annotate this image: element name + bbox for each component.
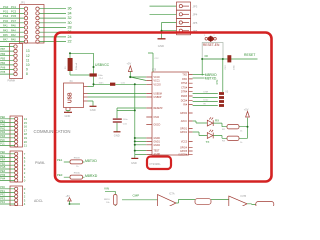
svg-text:IC7A: IC7A xyxy=(169,193,175,196)
svg-text:PH6: PH6 xyxy=(1,67,6,70)
supply +5V main xyxy=(127,62,133,78)
wire +5V to VCC pins xyxy=(129,76,146,81)
svg-text:PE3: PE3 xyxy=(0,170,5,173)
svg-text:PC1: PC1 xyxy=(11,5,17,9)
svg-text:8: 8 xyxy=(26,72,28,76)
svg-text:+5V: +5V xyxy=(244,108,249,112)
ground below JP bus xyxy=(158,39,166,48)
svg-text:PA5: PA5 xyxy=(3,33,8,37)
svg-text:PF1: PF1 xyxy=(0,190,5,193)
svg-text:PC5: PC5 xyxy=(11,14,17,18)
svg-text:SLEEP#: SLEEP# xyxy=(178,154,187,156)
svg-text:30: 30 xyxy=(68,21,72,25)
svg-text:FT232RL: FT232RL xyxy=(150,162,162,166)
ground C16 xyxy=(114,132,121,138)
wire JP1 row nets left xyxy=(0,9,24,42)
connector X3 pads xyxy=(219,91,229,107)
svg-text:GND: GND xyxy=(158,44,164,48)
svg-text:CMP: CMP xyxy=(133,193,140,197)
node VIN xyxy=(104,187,115,206)
wire IC7A output xyxy=(176,199,229,203)
wire IC7B output xyxy=(247,203,256,206)
jumper RESET-EN xyxy=(202,35,223,59)
svg-text:RTS#: RTS# xyxy=(181,83,188,85)
svg-text:PE1: PE1 xyxy=(0,120,5,123)
svg-text:ADCL: ADCL xyxy=(34,199,43,203)
svg-text:JP5: JP5 xyxy=(193,21,198,25)
LED TX xyxy=(193,130,214,144)
svg-text:PF4: PF4 xyxy=(0,201,5,204)
svg-text:PD3: PD3 xyxy=(0,135,5,138)
wire M8RXD net at chip xyxy=(193,73,218,77)
connector X4 USB xyxy=(64,80,88,111)
wire ground rail xyxy=(117,83,146,158)
svg-text:PE1: PE1 xyxy=(57,158,63,162)
svg-text:34: 34 xyxy=(68,11,72,15)
svg-text:PE0: PE0 xyxy=(0,116,5,119)
svg-text:JP4: JP4 xyxy=(193,13,198,17)
svg-text:TEST: TEST xyxy=(154,151,160,153)
svg-text:PH0: PH0 xyxy=(0,124,5,127)
svg-text:GND: GND xyxy=(131,161,137,165)
svg-text:RN1D: RN1D xyxy=(104,199,110,201)
svg-text:28: 28 xyxy=(68,26,72,30)
svg-text:RESET: RESET xyxy=(244,53,255,57)
ground main rail xyxy=(131,158,138,165)
wire PWML nets left xyxy=(0,151,15,181)
svg-text:100n: 100n xyxy=(123,119,129,121)
svg-text:USBDP: USBDP xyxy=(154,97,162,99)
svg-text:JP1: JP1 xyxy=(21,1,26,5)
connector ADCL 1x8 header xyxy=(10,186,23,206)
svg-text:GND: GND xyxy=(114,134,120,138)
big red annotation box xyxy=(55,33,272,182)
wire RESET net xyxy=(201,53,257,92)
svg-text:PH1: PH1 xyxy=(0,127,5,130)
svg-text:PH4: PH4 xyxy=(0,178,5,181)
svg-text:PJ0: PJ0 xyxy=(0,139,5,142)
svg-text:21: 21 xyxy=(24,144,28,148)
svg-text:500mA: 500mA xyxy=(75,63,78,70)
svg-text:AVCC: AVCC xyxy=(181,120,188,123)
svg-text:PD2: PD2 xyxy=(0,131,5,134)
wire M8TXD net at chip xyxy=(193,76,217,80)
wire COMMUNICATION nets left xyxy=(0,116,15,146)
node DTR rotated label xyxy=(216,79,219,84)
connector JP1 2x8 header xyxy=(20,1,45,44)
LED RX xyxy=(193,117,220,126)
svg-text:PH3: PH3 xyxy=(0,174,5,177)
svg-text:PE5: PE5 xyxy=(0,162,5,165)
svg-text:DSR#: DSR# xyxy=(181,96,188,98)
node PG0..PG7 labels xyxy=(3,5,17,42)
svg-text:COMMUNICATION: COMMUNICATION xyxy=(34,129,71,134)
svg-text:PE0: PE0 xyxy=(0,151,5,154)
svg-text:PA6: PA6 xyxy=(11,24,16,28)
op-amp IC7A xyxy=(158,193,177,212)
resistor comparator B xyxy=(256,202,274,207)
svg-text:TX: TX xyxy=(206,140,210,144)
node ADCL label xyxy=(34,199,43,203)
svg-text:RESET#: RESET# xyxy=(154,108,164,110)
connector JP4 xyxy=(177,10,198,18)
svg-text:GND: GND xyxy=(65,114,71,118)
svg-text:100n: 100n xyxy=(99,83,105,85)
connector JP5 xyxy=(177,18,198,26)
svg-text:PB7: PB7 xyxy=(1,48,6,51)
svg-text:RXD: RXD xyxy=(182,79,187,81)
svg-text:GND1: GND1 xyxy=(154,141,161,143)
node PWML label xyxy=(35,161,45,165)
svg-text:PE4: PE4 xyxy=(0,159,5,162)
svg-text:PG5: PG5 xyxy=(0,166,6,169)
capacitor C16 100n xyxy=(113,108,147,132)
svg-text:PG2: PG2 xyxy=(3,14,9,18)
svg-text:PF0: PF0 xyxy=(0,186,5,189)
capacitor C15 100n xyxy=(93,83,147,86)
resistor R3 1k xyxy=(213,136,247,144)
svg-text:100n: 100n xyxy=(98,75,104,77)
IC U8 FT232RL xyxy=(146,68,192,157)
svg-text:+5V: +5V xyxy=(127,62,132,66)
node pin numbers 0..4 xyxy=(24,187,26,206)
connector COMMUNICATION 1x8 header xyxy=(10,116,23,147)
capacitor C14 100n xyxy=(90,73,104,80)
ground USB shield xyxy=(64,111,72,119)
wire PWMH nets left xyxy=(0,47,14,75)
svg-text:VCC1: VCC1 xyxy=(154,81,161,83)
supply +5V for LEDs xyxy=(244,108,250,139)
svg-text:PA4: PA4 xyxy=(11,28,16,32)
svg-text:USBVCC: USBVCC xyxy=(95,63,110,67)
svg-text:PA2: PA2 xyxy=(11,33,16,37)
svg-text:VIN: VIN xyxy=(104,187,109,191)
resistor RN1A 1k (RX line) xyxy=(57,172,98,180)
svg-text:TXD: TXD xyxy=(182,75,187,77)
svg-text:GPIO2: GPIO2 xyxy=(180,132,188,134)
svg-text:36: 36 xyxy=(68,7,72,11)
wire 3V3 net with C12 label xyxy=(148,53,159,72)
svg-text:OSCI: OSCI xyxy=(154,117,160,119)
capacitor C13 100n xyxy=(225,55,235,70)
svg-text:DCD: DCD xyxy=(204,100,209,102)
svg-text:DTR#: DTR# xyxy=(181,92,188,94)
svg-text:22: 22 xyxy=(68,40,72,44)
wire JP3-JP6 bus xyxy=(150,6,177,39)
svg-text:PH5: PH5 xyxy=(1,71,6,74)
svg-text:PJ1: PJ1 xyxy=(0,143,5,146)
ground USB GND pin xyxy=(88,101,97,112)
svg-text:IC8: IC8 xyxy=(152,68,157,72)
svg-text:0R: 0R xyxy=(205,54,208,58)
supply +5V bottom-left xyxy=(66,195,81,205)
connector PWMH 1x7 header xyxy=(8,44,23,83)
svg-text:PB4: PB4 xyxy=(1,62,6,65)
svg-text:GPIO5: GPIO5 xyxy=(180,151,188,153)
resistor R2 1k xyxy=(213,123,247,132)
svg-text:PF3: PF3 xyxy=(0,197,5,200)
node pin numbers 7..0 xyxy=(24,152,26,183)
node COMMUNICATION label xyxy=(34,129,71,134)
svg-text:PE0: PE0 xyxy=(57,173,63,177)
svg-text:RESET-EN: RESET-EN xyxy=(203,43,220,47)
svg-text:11: 11 xyxy=(26,58,30,62)
svg-text:PWMH: PWMH xyxy=(8,80,16,83)
svg-text:PA7: PA7 xyxy=(3,38,8,42)
svg-text:RX: RX xyxy=(215,119,219,123)
svg-text:DTR: DTR xyxy=(216,79,219,84)
svg-text:PC0: PC0 xyxy=(3,19,9,23)
svg-text:GND: GND xyxy=(90,108,96,112)
svg-text:RN1B: RN1B xyxy=(74,157,80,159)
svg-text:CTS#: CTS# xyxy=(181,88,188,90)
svg-text:PG0: PG0 xyxy=(3,5,9,9)
svg-text:IC7B: IC7B xyxy=(241,195,247,198)
svg-text:12: 12 xyxy=(26,54,30,58)
svg-text:PC3: PC3 xyxy=(11,10,17,14)
op-amp IC7B xyxy=(229,195,247,213)
svg-text:GPIO0: GPIO0 xyxy=(180,113,188,115)
wire RTS/CTS/DTR/DSR to X3 xyxy=(193,92,218,106)
svg-text:PA1: PA1 xyxy=(3,24,8,28)
wire USBVCC feed xyxy=(69,52,95,86)
svg-text:13: 13 xyxy=(26,49,30,53)
connector JP6 xyxy=(177,27,198,35)
svg-text:24: 24 xyxy=(68,35,72,39)
svg-text:VCC5: VCC5 xyxy=(181,142,188,144)
resistor RN1D 10k xyxy=(104,195,117,206)
svg-text:32: 32 xyxy=(68,16,72,20)
svg-text:USBDM: USBDM xyxy=(154,94,162,96)
svg-text:GND2: GND2 xyxy=(154,145,161,147)
node pin numbers 14..21 xyxy=(24,117,28,148)
svg-text:DSR: DSR xyxy=(204,92,209,94)
wire USB data lines xyxy=(88,94,147,98)
svg-text:9: 9 xyxy=(26,68,28,72)
svg-text:GND0: GND0 xyxy=(154,138,161,140)
connector JP3 xyxy=(177,2,198,10)
svg-text:PA3: PA3 xyxy=(3,28,8,32)
svg-text:JP3: JP3 xyxy=(193,4,198,8)
svg-text:PWML: PWML xyxy=(35,161,45,165)
svg-text:PG1: PG1 xyxy=(3,10,9,14)
svg-text:VCCIO: VCCIO xyxy=(154,84,161,86)
svg-text:PB6: PB6 xyxy=(1,53,6,56)
small red annotation box around FT232RL value xyxy=(147,157,171,170)
svg-text:PB5: PB5 xyxy=(1,57,6,60)
svg-text:10: 10 xyxy=(26,63,30,67)
svg-text:M8RXD: M8RXD xyxy=(85,174,98,178)
svg-text:RN1A: RN1A xyxy=(74,172,80,175)
connector PWML 1x8 header xyxy=(10,151,23,182)
resistor comparator A xyxy=(195,199,211,205)
resistor RN1B 1k (TX line) xyxy=(57,157,97,168)
svg-text:AGND: AGND xyxy=(154,153,161,156)
svg-text:PC7: PC7 xyxy=(11,19,17,23)
svg-text:PA0: PA0 xyxy=(11,38,16,42)
wire JP1 row nets right with pin numbers xyxy=(39,7,71,44)
node USBVCC xyxy=(95,63,110,67)
svg-text:GPIO4: GPIO4 xyxy=(180,148,188,150)
svg-text:PE1: PE1 xyxy=(0,155,5,158)
svg-text:100n: 100n xyxy=(234,64,236,70)
node CMP xyxy=(122,193,158,200)
svg-text:VCC0: VCC0 xyxy=(154,77,161,79)
svg-text:M8TXD: M8TXD xyxy=(85,159,97,163)
svg-text:PF2: PF2 xyxy=(0,194,5,197)
wire ADCL nets left xyxy=(0,186,15,204)
node FT232RL value xyxy=(150,162,162,166)
svg-text:DCD#: DCD# xyxy=(181,100,188,102)
svg-text:OSCO: OSCO xyxy=(154,125,161,127)
node pin numbers 13..8 xyxy=(26,49,30,76)
svg-text:GPIO1: GPIO1 xyxy=(180,129,188,131)
svg-text:USB: USB xyxy=(68,92,74,103)
fuse F1 500mA xyxy=(65,58,78,71)
